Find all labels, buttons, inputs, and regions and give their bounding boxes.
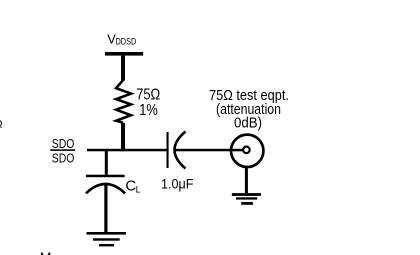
ground under CL (87, 232, 127, 246)
svg-text:M: M (40, 249, 52, 255)
svg-text:1.0μF: 1.0μF (161, 175, 194, 191)
capacitor CL top plate (86, 175, 125, 178)
svg-text:0dB): 0dB) (234, 116, 262, 132)
label VDDSD (107, 32, 136, 47)
svg-text:DDSD: DDSD (116, 37, 137, 47)
svg-text:L: L (136, 184, 141, 194)
wire: VDDSD bar to resistor top (121, 56, 125, 81)
wire: coax connector to ground (245, 167, 248, 193)
wire: CL to ground (104, 184, 107, 232)
wire: node drop to CL (105, 150, 108, 175)
coax connector center pin (243, 147, 250, 154)
ground under coax connector (232, 193, 261, 205)
label 75ohm test eqpt (209, 88, 289, 132)
overbar of SDO-bar label (50, 149, 75, 151)
svg-text:Ω: Ω (0, 119, 3, 131)
svg-text:SDO: SDO (52, 150, 75, 165)
svg-text:1%: 1% (139, 102, 158, 119)
power rail VDDSD bar (105, 52, 143, 56)
capacitor CL curved plate (86, 184, 125, 193)
wire: coupling cap to coax connector (175, 149, 244, 152)
svg-text:75Ω: 75Ω (136, 86, 160, 103)
wire: node horizontal from SDO to coupling cap (87, 149, 167, 152)
resistor R 75ohm 1% zigzag (116, 80, 131, 123)
capacitor 1.0uF flat plate (167, 132, 169, 168)
capacitor 1.0uF curved plate (175, 132, 186, 169)
label CL (125, 177, 140, 194)
svg-text:SDO: SDO (52, 136, 75, 151)
wire: resistor bottom to node (121, 123, 125, 151)
coax connector outer circle (231, 135, 263, 167)
